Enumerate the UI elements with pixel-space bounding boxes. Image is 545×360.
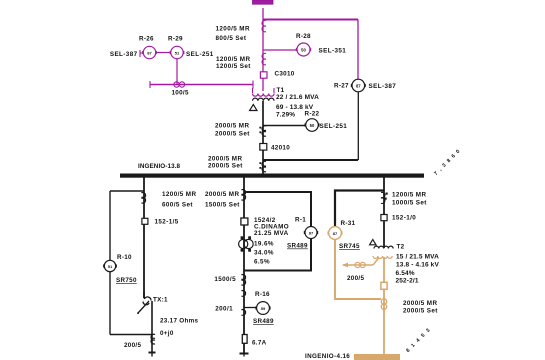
svg-text:50: 50 <box>301 48 306 53</box>
switch C3010 <box>260 71 294 79</box>
svg-text:42010: 42010 <box>271 145 290 152</box>
wire branch1 vertical <box>143 178 145 299</box>
resistor label 23.17 Ohms 0+j0 <box>160 318 199 338</box>
wire differential tap to R-31 <box>335 191 384 227</box>
generator symbol <box>239 236 254 251</box>
wire branch3 vertical (13.8 side) <box>383 178 385 249</box>
relay R-31 SR745 <box>328 220 360 250</box>
svg-text:2000/5 MR: 2000/5 MR <box>208 156 242 163</box>
transformer TX:1 (grounding) <box>137 292 168 314</box>
svg-text:2000/5 Set: 2000/5 Set <box>403 308 438 315</box>
svg-text:51: 51 <box>108 264 113 269</box>
wire R-27 vertical (69kV side) <box>357 20 359 80</box>
ground (branch1) <box>149 353 156 357</box>
breaker 152-1/5 <box>142 218 179 225</box>
svg-text:200/5: 200/5 <box>124 342 141 349</box>
svg-text:1200/5 MR: 1200/5 MR <box>216 56 250 63</box>
svg-text:600/5 Set: 600/5 Set <box>162 202 193 209</box>
transformer T2 <box>373 244 439 285</box>
CT 1200/5 MR 800/5 Set <box>216 20 267 42</box>
svg-text:0+j0: 0+j0 <box>160 330 174 337</box>
svg-text:87: 87 <box>333 231 338 236</box>
wire stub to relay R-28 <box>263 49 297 51</box>
svg-text:21.25 MVA: 21.25 MVA <box>254 230 289 237</box>
svg-text:R-10: R-10 <box>117 254 132 261</box>
node 7,3860 (bus id, rotated) <box>433 146 464 177</box>
svg-text:INGENIO-13.8: INGENIO-13.8 <box>138 163 181 170</box>
svg-text:87: 87 <box>356 84 361 89</box>
svg-text:2000/5 Set: 2000/5 Set <box>208 163 243 170</box>
generator C.DINAMO labels <box>254 224 289 266</box>
CT 2000/5 MR 2000/5 Set (R-22) <box>215 123 266 138</box>
breaker 1524/2 <box>241 217 276 225</box>
wire main 69kV vertical <box>262 8 264 91</box>
wire T2 secondary vertical (tan) <box>383 257 385 355</box>
breaker 152-1/0 <box>381 215 416 222</box>
wire differential loop (generator) <box>244 192 311 271</box>
svg-text:100/5: 100/5 <box>172 90 189 97</box>
ground (branch2) <box>240 354 249 357</box>
wire 69kV branch to R-27 (horizontal) <box>263 19 358 21</box>
svg-text:19.6%: 19.6% <box>254 241 274 248</box>
CT 2000/5 MR 1500/5 Set <box>205 190 246 209</box>
svg-text:1500/5: 1500/5 <box>214 276 236 283</box>
svg-text:6.7A: 6.7A <box>252 340 267 347</box>
svg-text:R-26: R-26 <box>139 36 154 43</box>
delta winding symbol T1 <box>250 105 257 111</box>
wire grounding tail <box>151 301 153 353</box>
relay R-28 SEL-351 <box>296 33 346 56</box>
switch 42010 <box>260 144 290 152</box>
svg-text:R-29: R-29 <box>168 36 183 43</box>
svg-text:R-28: R-28 <box>296 33 311 40</box>
svg-text:252-2/1: 252-2/1 <box>396 277 419 284</box>
CT 2000/5 MR 2000/5 Set (tan) <box>381 299 438 315</box>
relay R-1 SR489 <box>287 217 318 250</box>
svg-text:SEL-351: SEL-351 <box>319 48 347 55</box>
svg-text:15 / 21.5 MVA: 15 / 21.5 MVA <box>396 254 439 261</box>
svg-text:1200/5 Set: 1200/5 Set <box>216 63 251 70</box>
svg-text:SEL-251: SEL-251 <box>186 51 214 58</box>
wire R-27 to 13.8kV side <box>263 92 358 160</box>
svg-text:59: 59 <box>261 306 266 311</box>
delta winding symbol T2 <box>370 240 376 245</box>
svg-text:C3010: C3010 <box>275 71 295 78</box>
svg-text:SR745: SR745 <box>339 243 360 250</box>
svg-text:R-1: R-1 <box>295 217 306 224</box>
wire R-29 down to metering line <box>176 59 178 85</box>
wire metering line with CT 100/5 <box>150 81 253 97</box>
wire branch2 vertical <box>243 178 245 354</box>
svg-text:SEL-387: SEL-387 <box>110 51 138 58</box>
relay R-16 SR489 <box>244 291 274 325</box>
svg-text:6.5%: 6.5% <box>254 259 270 266</box>
svg-text:1200/5 MR: 1200/5 MR <box>216 26 250 33</box>
svg-text:1200/5 MR: 1200/5 MR <box>162 191 196 198</box>
bus UTILITY (top 69kV bus bar) <box>253 0 274 4</box>
CT 1200/5 MR 600/5 Set <box>141 191 196 209</box>
svg-text:R-27: R-27 <box>334 83 349 90</box>
relay R-27 SEL-387 (differential) <box>334 79 396 92</box>
svg-text:2000/5 Set: 2000/5 Set <box>215 131 250 138</box>
svg-text:R-31: R-31 <box>341 220 356 227</box>
transformer T1 <box>253 87 320 119</box>
node 81453 (bus id, rotated) <box>405 325 434 354</box>
svg-text:200/1: 200/1 <box>215 306 233 313</box>
svg-text:2000/5 MR: 2000/5 MR <box>205 191 239 198</box>
svg-text:152-1/5: 152-1/5 <box>155 219 179 226</box>
svg-text:1000/5 Set: 1000/5 Set <box>392 200 427 207</box>
svg-text:34.0%: 34.0% <box>254 250 274 257</box>
wire R-10 return to grounding line <box>110 272 152 335</box>
svg-text:SR489: SR489 <box>253 318 274 325</box>
breaker 252-2/1 (tan) <box>381 282 387 289</box>
svg-text:SEL-251: SEL-251 <box>320 123 348 130</box>
relay R-22 SEL-251 <box>263 110 347 131</box>
svg-text:SEL-387: SEL-387 <box>369 83 397 90</box>
svg-text:22 / 21.6 MVA: 22 / 21.6 MVA <box>276 94 319 101</box>
svg-text:1500/5 Set: 1500/5 Set <box>205 202 240 209</box>
resistor 6.7A (grounding resistor) <box>242 335 266 347</box>
wire R-31 return (4.16 side, tan) <box>335 239 381 299</box>
svg-text:51: 51 <box>175 51 180 56</box>
bus INGENIO-13.8 <box>120 163 424 178</box>
svg-text:INGENIO-4.16: INGENIO-4.16 <box>305 353 350 360</box>
svg-text:50: 50 <box>310 123 315 128</box>
svg-text:T1: T1 <box>277 87 285 94</box>
CT 200/5 (grounding) <box>124 334 155 349</box>
CT 200/1 <box>215 306 245 316</box>
svg-text:800/5 Set: 800/5 Set <box>216 35 247 42</box>
svg-text:152-1/0: 152-1/0 <box>392 215 416 222</box>
svg-text:13.8 - 4.16 kV: 13.8 - 4.16 kV <box>396 262 439 269</box>
svg-text:87: 87 <box>309 231 314 236</box>
svg-text:23.17 Ohms: 23.17 Ohms <box>160 318 199 325</box>
svg-text:7.29%: 7.29% <box>276 112 295 119</box>
CT (neutral upper) <box>241 291 245 297</box>
CT 1200/5 MR 1200/5 Set <box>216 53 266 70</box>
svg-text:T2: T2 <box>397 244 405 251</box>
svg-text:6.54%: 6.54% <box>396 270 415 277</box>
svg-text:TX:1: TX:1 <box>153 297 168 304</box>
svg-text:R-16: R-16 <box>255 291 270 298</box>
wire main 13.8kV vertical <box>262 101 264 174</box>
relay R-10 SR750 <box>104 254 137 284</box>
CT 200/5 neutral tap with arrow (tan) <box>342 258 379 283</box>
svg-text:SR489: SR489 <box>287 243 308 250</box>
svg-text:200/5: 200/5 <box>347 275 364 282</box>
relay R-29 SEL-251 <box>156 36 214 59</box>
bus INGENIO-4.16 <box>305 353 400 360</box>
CT 1200/5 MR 1000/5 Set <box>381 192 427 207</box>
CT 2000/5 MR 2000/5 Set (bus side) <box>208 156 266 172</box>
svg-text:1200/5 MR: 1200/5 MR <box>392 192 426 199</box>
wire tap to relay R-10 <box>110 191 144 261</box>
svg-text:2000/5 MR: 2000/5 MR <box>403 300 437 307</box>
svg-text:R-22: R-22 <box>305 110 320 117</box>
CT 1500/5 <box>214 275 245 286</box>
svg-text:SR750: SR750 <box>116 277 137 284</box>
svg-text:87: 87 <box>147 51 152 56</box>
svg-text:2000/5 MR: 2000/5 MR <box>215 123 249 130</box>
relay R-26 SEL-387 <box>110 36 157 59</box>
